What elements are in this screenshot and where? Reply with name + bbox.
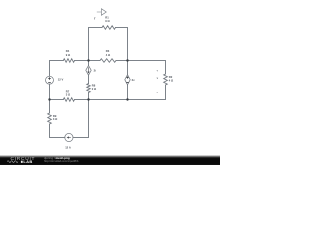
- resistor R9: [48, 113, 52, 124]
- svg-text:R4: R4: [66, 49, 70, 53]
- wire top loop left vertical: [88, 28, 90, 61]
- CircuitLab logo waveform: [7, 161, 18, 163]
- svg-text:R3: R3: [106, 49, 110, 53]
- current source I1: [65, 133, 73, 141]
- wire left column upper: [49, 61, 51, 77]
- wire left column below V1: [49, 84, 51, 99]
- svg-text:2i: 2i: [94, 68, 96, 72]
- svg-text:I: I: [94, 17, 95, 21]
- minus inside diamond2: [126, 82, 128, 84]
- arrow inside diamond1: [87, 67, 89, 73]
- junction node C: [48, 98, 50, 100]
- wire row2 from left column to R4: [50, 60, 64, 62]
- plus inside diamond2: [126, 76, 128, 78]
- resistor R7: [63, 98, 74, 102]
- wire row4 left segment: [50, 137, 65, 139]
- arrow inside current source I1: [67, 136, 71, 138]
- wire diamond1 to R8: [88, 75, 90, 83]
- dependent current source B1 diamond: [86, 66, 91, 76]
- voltage source V1: [46, 76, 54, 84]
- wire top row right segment: [116, 27, 128, 29]
- wire row3 middle segment: [75, 99, 166, 101]
- wire row3 left segment: [50, 99, 64, 101]
- wire row2 R4 to node A: [75, 60, 101, 62]
- wire node B to diamond2: [127, 61, 129, 75]
- resistor R8: [87, 84, 90, 93]
- svg-text:R1: R1: [105, 15, 109, 19]
- wire right column upper: [165, 61, 167, 75]
- wire bottom loop right vertical: [88, 100, 90, 138]
- plus minus inside V1: [48, 77, 51, 82]
- CircuitLab logo LAB: [21, 161, 23, 163]
- wire R8 to row3: [88, 93, 90, 100]
- resistor R4: [63, 59, 74, 63]
- wire row2 R3 to right column: [116, 60, 166, 62]
- wire diamond2 to row3: [127, 85, 129, 100]
- junction node D: [87, 98, 89, 100]
- dependent voltage source B2 diamond: [125, 75, 130, 85]
- svg-text:2v: 2v: [132, 78, 135, 82]
- wire node A to diamond1: [88, 61, 90, 66]
- junction node B: [126, 59, 128, 61]
- wire row4 right segment: [73, 137, 89, 139]
- footer bar: [0, 154, 220, 165]
- resistor R1: [102, 26, 116, 30]
- wire right column lower: [165, 85, 167, 100]
- resistor R2: [164, 74, 168, 85]
- svg-text:12 A: 12 A: [65, 145, 71, 149]
- svg-text:http://circuitlab.com/c/pe38rb: http://circuitlab.com/c/pe38rb: [44, 159, 79, 163]
- svg-text:12 V: 12 V: [58, 78, 64, 82]
- wire left column lower to R9: [49, 100, 51, 114]
- junction node E: [126, 98, 128, 100]
- junction node A: [87, 59, 89, 61]
- resistor R3: [100, 59, 116, 63]
- wire top loop right vertical: [127, 28, 129, 61]
- wire top row left segment: [89, 27, 103, 29]
- svg-text:LAB: LAB: [23, 159, 32, 164]
- annotation arrow I: [97, 9, 107, 16]
- wire left column below R9: [49, 124, 51, 138]
